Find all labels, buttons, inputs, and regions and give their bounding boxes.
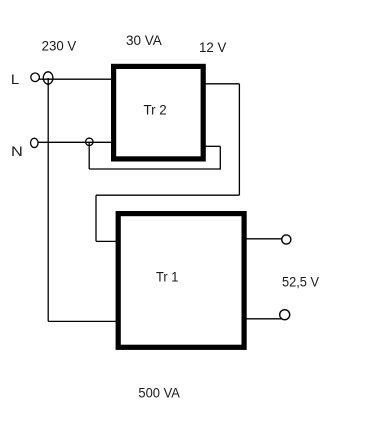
wire up to Tr2 right stub: [219, 146, 221, 169]
wire L to Tr2: [39, 78, 111, 80]
terminal circle output bottom: [280, 310, 290, 320]
svg-text:30 VA: 30 VA: [126, 32, 162, 48]
wire bottom into Tr1: [48, 320, 116, 322]
svg-text:L: L: [11, 71, 20, 87]
wire Tr1 output top: [246, 238, 283, 240]
terminal ellipse N: [31, 138, 39, 147]
svg-text:500 VA: 500 VA: [138, 385, 180, 401]
wire secondary down: [238, 84, 240, 195]
wire secondary across: [96, 194, 239, 196]
wire below Tr2: [89, 168, 220, 170]
svg-text:Tr 2: Tr 2: [144, 102, 167, 118]
wire into Tr1 primary top: [96, 240, 116, 242]
svg-text:12 V: 12 V: [199, 39, 227, 55]
svg-text:230 V: 230 V: [42, 38, 77, 54]
transformer Tr1: [118, 214, 244, 348]
svg-text:52,5 V: 52,5 V: [282, 273, 320, 289]
terminal circle L: [31, 73, 40, 82]
wire Tr1 output bottom: [246, 318, 284, 320]
wire N to Tr2: [38, 141, 111, 143]
wire Tr2 secondary out: [205, 83, 239, 85]
svg-text:N: N: [11, 143, 23, 159]
svg-text:Tr 1: Tr 1: [156, 268, 179, 284]
junction circle on N wire: [86, 138, 94, 146]
wire vertical from L down: [47, 78, 49, 321]
wire secondary down to Tr1: [95, 195, 97, 241]
transformer Tr2: [114, 66, 204, 158]
wire Tr2 right bottom stub: [205, 145, 220, 147]
terminal circle output top: [282, 235, 291, 244]
terminal ellipse L: [43, 72, 53, 84]
wire drop from junction: [88, 142, 90, 169]
